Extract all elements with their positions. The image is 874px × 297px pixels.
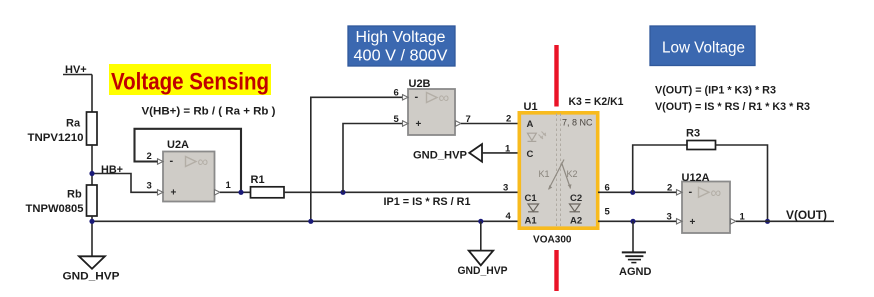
svg-text:5: 5 xyxy=(605,207,611,218)
svg-text:Voltage Sensing: Voltage Sensing xyxy=(111,69,269,96)
svg-text:A1: A1 xyxy=(525,216,538,227)
resistor R1 xyxy=(251,187,285,198)
op-amp U2B xyxy=(403,89,462,135)
svg-text:C1: C1 xyxy=(525,193,538,204)
resistor Ra xyxy=(87,112,98,145)
svg-text:K1: K1 xyxy=(539,169,550,179)
svg-text:R3: R3 xyxy=(686,128,700,140)
svg-text:4: 4 xyxy=(506,211,512,222)
svg-text:GND_HVP: GND_HVP xyxy=(63,270,120,282)
svg-text:V(OUT) = (IP1 * K3) * R3: V(OUT) = (IP1 * K3) * R3 xyxy=(655,85,776,97)
svg-text:3: 3 xyxy=(667,212,672,223)
svg-text:3: 3 xyxy=(147,181,152,192)
svg-text:7, 8 NC: 7, 8 NC xyxy=(562,118,593,128)
wire U1 pin 5 to U12A pin 3 xyxy=(598,220,677,222)
svg-text:U2A: U2A xyxy=(167,139,189,151)
svg-text:GND_HVP: GND_HVP xyxy=(413,150,467,162)
svg-text:K3 = K2/K1: K3 = K2/K1 xyxy=(569,96,624,108)
ground GND_HVP left xyxy=(79,256,105,269)
svg-text:V(OUT): V(OUT) xyxy=(786,208,827,222)
wire Rb to ground xyxy=(91,216,93,256)
wire U2A feedback loop xyxy=(135,129,242,193)
svg-text:U1: U1 xyxy=(524,101,538,113)
wire R3 to output xyxy=(716,145,768,221)
svg-text:V(HB+) = Rb / ( Ra + Rb ): V(HB+) = Rb / ( Ra + Rb ) xyxy=(142,106,276,118)
svg-text:C: C xyxy=(527,149,534,160)
wire U2B pin 6 to ground rail xyxy=(311,97,403,221)
node U2A output xyxy=(238,190,243,195)
resistor R3 xyxy=(687,141,716,150)
svg-text:∞: ∞ xyxy=(439,90,450,107)
svg-text:400 V / 800V: 400 V / 800V xyxy=(354,48,449,65)
wire HV+ to Ra xyxy=(91,75,93,113)
node ground rail left xyxy=(89,219,94,224)
svg-text:U2B: U2B xyxy=(409,78,431,90)
wire ground to U1 pin 1 xyxy=(482,152,518,154)
wire R3 feedback left xyxy=(633,145,687,192)
wire Ra to Rb xyxy=(91,145,93,185)
svg-text:AGND: AGND xyxy=(619,266,651,278)
svg-text:3: 3 xyxy=(503,183,508,194)
resistor Rb xyxy=(87,185,98,216)
svg-text:GND_HVP: GND_HVP xyxy=(458,265,508,277)
svg-text:U12A: U12A xyxy=(682,172,710,184)
node ground tap U2B xyxy=(308,219,313,224)
svg-text:5: 5 xyxy=(394,114,400,125)
svg-text:K2: K2 xyxy=(567,169,578,179)
wire U2B output to U1 pin 2 xyxy=(461,123,518,125)
svg-text:2: 2 xyxy=(667,183,672,194)
wire U2B pin 5 tap xyxy=(343,124,403,193)
node A1 ground tap xyxy=(478,219,483,224)
ground GND_HVP bottom xyxy=(469,251,494,266)
node V(OUT) xyxy=(765,219,770,224)
isolation amplifier U1 VOA300 xyxy=(519,113,597,228)
label Voltage Sensing highlight xyxy=(109,64,271,96)
wire HB+ to U2A pin 3 xyxy=(92,174,158,193)
svg-text:C2: C2 xyxy=(570,193,582,204)
ground AGND xyxy=(622,252,646,262)
wire HV+ stub xyxy=(63,74,92,76)
svg-text:A: A xyxy=(527,119,534,130)
svg-text:1: 1 xyxy=(505,144,511,155)
svg-text:∞: ∞ xyxy=(198,154,209,171)
red isolation line bottom xyxy=(554,250,558,291)
svg-text:∞: ∞ xyxy=(711,184,722,201)
svg-text:2: 2 xyxy=(506,114,511,125)
label High Voltage box xyxy=(348,26,455,66)
svg-text:Rb: Rb xyxy=(67,189,82,201)
svg-text:V(OUT) = IS * RS / R1 * K3 * R: V(OUT) = IS * RS / R1 * K3 * R3 xyxy=(655,101,810,113)
red isolation line top xyxy=(554,45,558,107)
wire R1 to U1 pin 3 xyxy=(284,191,518,193)
svg-text:1: 1 xyxy=(226,180,232,191)
svg-text:R1: R1 xyxy=(251,174,265,186)
wire AGND drop xyxy=(632,221,634,252)
svg-text:-: - xyxy=(170,155,174,167)
svg-text:2: 2 xyxy=(147,151,152,162)
svg-text:+: + xyxy=(690,217,696,228)
op-amp U12A xyxy=(677,182,737,234)
svg-text:TNPV1210: TNPV1210 xyxy=(28,132,84,144)
svg-text:Low Voltage: Low Voltage xyxy=(662,39,745,56)
svg-text:+: + xyxy=(171,188,177,199)
svg-text:TNPW0805: TNPW0805 xyxy=(26,203,84,215)
node R3 left tap xyxy=(630,190,635,195)
svg-text:-: - xyxy=(415,91,419,103)
svg-text:IP1 = IS * RS / R1: IP1 = IS * RS / R1 xyxy=(384,196,471,208)
label Low Voltage box xyxy=(650,26,755,66)
svg-text:-: - xyxy=(689,186,693,198)
svg-text:A2: A2 xyxy=(570,216,582,227)
wire U1 pin 6 to U12A pin 2 xyxy=(598,191,677,193)
node IP1 tap xyxy=(340,190,345,195)
node AGND tap xyxy=(630,219,635,224)
svg-text:Ra: Ra xyxy=(66,118,81,130)
svg-text:6: 6 xyxy=(394,88,399,99)
svg-text:VOA300: VOA300 xyxy=(533,234,572,246)
wire output V(OUT) xyxy=(736,220,834,222)
svg-text:High Voltage: High Voltage xyxy=(356,29,446,46)
ground GND_HVP at U1 pin C xyxy=(469,144,482,162)
node HB+ xyxy=(89,171,94,176)
wire A1 ground drop xyxy=(480,221,482,250)
wire U2A output xyxy=(220,191,251,193)
svg-text:+: + xyxy=(416,119,422,130)
wire ground rail to U1 pin 4 xyxy=(92,220,518,222)
op-amp U2A xyxy=(158,152,221,202)
